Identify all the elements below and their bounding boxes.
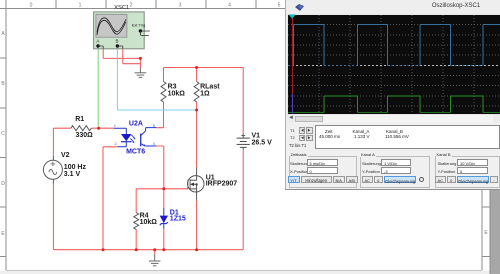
svg-text:E: E bbox=[1, 231, 5, 237]
axis center line white dashed bbox=[288, 65, 500, 67]
svg-text:2: 2 bbox=[130, 3, 133, 9]
svg-text:1: 1 bbox=[114, 123, 117, 128]
battery V1 (26.5 V) bbox=[237, 133, 250, 149]
svg-text:R1: R1 bbox=[75, 116, 84, 123]
grid horizontal dotted bbox=[288, 25, 500, 106]
T1 T2 cursor controls bbox=[290, 128, 295, 133]
svg-text:5: 5 bbox=[278, 3, 281, 9]
wire gate node down to D1 bbox=[163, 189, 165, 208]
svg-text:Ext Trig: Ext Trig bbox=[132, 23, 146, 28]
svg-text:1: 1 bbox=[79, 3, 82, 9]
wire scope A- minus pin bbox=[103, 49, 140, 69]
svg-text:100 Hz: 100 Hz bbox=[64, 164, 87, 171]
svg-text:D: D bbox=[1, 181, 5, 187]
title bar bbox=[286, 0, 500, 14]
group box Kanal B bbox=[435, 156, 500, 188]
svg-text:3: 3 bbox=[179, 3, 182, 9]
svg-text:1Z15: 1Z15 bbox=[170, 216, 186, 223]
group box Zeitbasis bbox=[289, 156, 358, 188]
resistor R1 (330 ohm, horizontal) bbox=[71, 126, 91, 131]
ground (scope minus node) bbox=[135, 69, 147, 78]
wire top rail node to V1 bbox=[164, 67, 244, 69]
svg-text:MCT6: MCT6 bbox=[126, 149, 145, 156]
trace channel A blue square wave bbox=[288, 24, 500, 65]
MOSFET U1 IRFP2907 bbox=[188, 168, 204, 201]
wire gate node to MOSFET gate bbox=[136, 188, 188, 190]
svg-text:E: E bbox=[484, 230, 488, 236]
svg-text:10kΩ: 10kΩ bbox=[168, 90, 186, 97]
junction dots bbox=[97, 57, 198, 251]
wire V2 top bbox=[52, 128, 54, 156]
svg-text:330Ω: 330Ω bbox=[75, 132, 93, 139]
wire R4 bottom pin bbox=[135, 229, 137, 250]
wire D1 bottom bbox=[163, 229, 165, 250]
svg-text:4: 4 bbox=[153, 141, 156, 146]
wire bottom rail bbox=[53, 249, 243, 251]
oscilloscope icon XSC1 bbox=[94, 5, 150, 49]
wire RLast bottom to MOSFET drain bbox=[196, 102, 198, 168]
svg-text:2: 2 bbox=[115, 141, 118, 146]
svg-text:4: 4 bbox=[228, 3, 231, 9]
svg-text:26.5 V: 26.5 V bbox=[252, 140, 273, 147]
ruler numbers bbox=[30, 3, 281, 9]
oscilloscope window bbox=[285, 0, 500, 190]
resistor RLast (1 ohm, vertical) bbox=[194, 82, 199, 102]
wire MOSFET source down bbox=[196, 201, 198, 250]
svg-text:3.1 V: 3.1 V bbox=[64, 171, 81, 178]
resistor R4 (10k, vertical) bbox=[134, 213, 139, 230]
resistor R3 (10k, vertical) bbox=[161, 82, 166, 102]
wire V2 bottom bbox=[52, 184, 54, 250]
svg-text:B: B bbox=[115, 38, 118, 43]
svg-text:V2: V2 bbox=[61, 152, 70, 159]
ground (bottom rail) bbox=[149, 254, 161, 266]
svg-text:IRFP2907: IRFP2907 bbox=[206, 181, 238, 188]
T1 marker triangle bbox=[289, 15, 296, 19]
sheet border frame bbox=[490, 0, 500, 274]
wire V1 top bbox=[242, 68, 244, 134]
wire ground stub at rail bbox=[154, 250, 156, 254]
row letters bbox=[1, 31, 488, 237]
scope screen bbox=[287, 14, 500, 115]
svg-text:A: A bbox=[1, 31, 5, 37]
wire opto pin2 to left branch bbox=[103, 147, 118, 250]
wire R3 top pin bbox=[163, 68, 165, 82]
svg-text:U2A: U2A bbox=[129, 121, 143, 128]
wire RLast top pin bbox=[196, 68, 198, 82]
svg-text:XSC1: XSC1 bbox=[114, 5, 129, 11]
zener diode D1 1Z15 bbox=[163, 208, 165, 229]
svg-text:10kΩ: 10kΩ bbox=[140, 219, 158, 226]
control panel bbox=[286, 0, 500, 190]
wire opto pin4 to gate node bbox=[156, 146, 164, 189]
horizontal scrollbar bbox=[287, 115, 500, 123]
wire scope B- minus pin bbox=[123, 49, 141, 64]
grid vertical dotted bbox=[319, 15, 474, 114]
svg-text:B: B bbox=[1, 81, 5, 87]
svg-text:A: A bbox=[96, 38, 99, 43]
trace channel B green square wave bbox=[288, 96, 500, 113]
svg-text:5: 5 bbox=[153, 123, 156, 128]
cursor T1 red line bbox=[291, 16, 293, 95]
svg-text:V1: V1 bbox=[252, 132, 261, 139]
optocoupler U2A MCT6 bbox=[114, 128, 156, 147]
svg-text:0: 0 bbox=[30, 3, 33, 9]
group box Kanal A bbox=[360, 156, 431, 188]
wire R1 left pin bbox=[53, 127, 71, 129]
source V2 (100 Hz 3.1 V sine source) bbox=[43, 156, 62, 184]
svg-text:C: C bbox=[1, 131, 5, 137]
readout box bbox=[315, 125, 500, 149]
wire V1 bottom bbox=[242, 150, 244, 250]
wire blue scope B probe bbox=[117, 48, 196, 110]
wire R3 bottom to opto pin5 bbox=[156, 102, 163, 128]
svg-text:1Ω: 1Ω bbox=[200, 90, 210, 97]
wire green scope A probe bbox=[97, 48, 99, 129]
wire R1 right pin to opto pin1 bbox=[91, 127, 114, 129]
wire R4 top pin bbox=[135, 189, 137, 213]
